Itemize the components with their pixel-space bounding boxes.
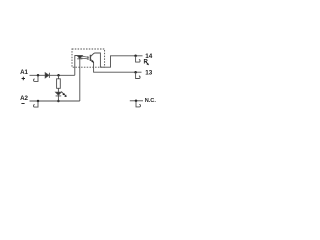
LED LED1 indicator xyxy=(56,92,62,96)
svg-text:13: 13 xyxy=(145,70,153,77)
load marker arrow through R xyxy=(145,61,148,64)
terminal N.C. dot xyxy=(135,100,138,103)
label A2 minus sign xyxy=(21,103,24,105)
svg-text:A2: A2 xyxy=(20,95,28,102)
label A1 plus sign xyxy=(22,77,25,80)
terminal A2 dot xyxy=(37,100,40,103)
emitter arrowhead xyxy=(91,60,94,63)
diode D1 xyxy=(45,73,49,78)
wire resistor top stub xyxy=(58,75,60,78)
terminal 14 dot xyxy=(134,55,137,58)
junction dot LED1 bottom xyxy=(57,100,60,103)
terminal 13 dot xyxy=(134,71,137,74)
terminal N.C. clamp xyxy=(136,101,141,107)
resistor R1 xyxy=(57,79,61,89)
wire bottom A2 net xyxy=(30,100,80,102)
phototransistor Q1 base bar xyxy=(89,55,91,61)
svg-text:A1: A1 xyxy=(20,69,28,76)
terminal 13 clamp xyxy=(136,72,141,78)
phototransistor emitter + wire to 13 xyxy=(91,59,142,72)
wire opto LED cathode down xyxy=(79,59,81,101)
optocoupler box dashed xyxy=(72,49,105,67)
opto light arrows xyxy=(81,56,87,59)
LED1 light arrows xyxy=(61,92,65,96)
terminal 14 clamp xyxy=(136,56,141,62)
terminal A2 clamp xyxy=(34,101,39,107)
wire A1 input segment xyxy=(30,74,75,76)
node junction dot on A1 wire xyxy=(57,74,60,77)
LED LED2 opto emitter diode xyxy=(77,56,82,59)
svg-text:R: R xyxy=(144,59,149,65)
opto LED anode line xyxy=(75,55,83,57)
terminal N.C. stub wire xyxy=(130,100,143,102)
wire resistor to LED stub xyxy=(57,88,59,92)
phototransistor collector + wire staircase to 14 xyxy=(91,53,143,67)
terminal A1 dot xyxy=(37,74,40,77)
wire input rise to opto LED xyxy=(75,56,77,76)
wire LED1 to bottom xyxy=(57,96,59,101)
terminal A1 clamp xyxy=(34,75,39,81)
svg-text:N.C.: N.C. xyxy=(145,98,157,104)
